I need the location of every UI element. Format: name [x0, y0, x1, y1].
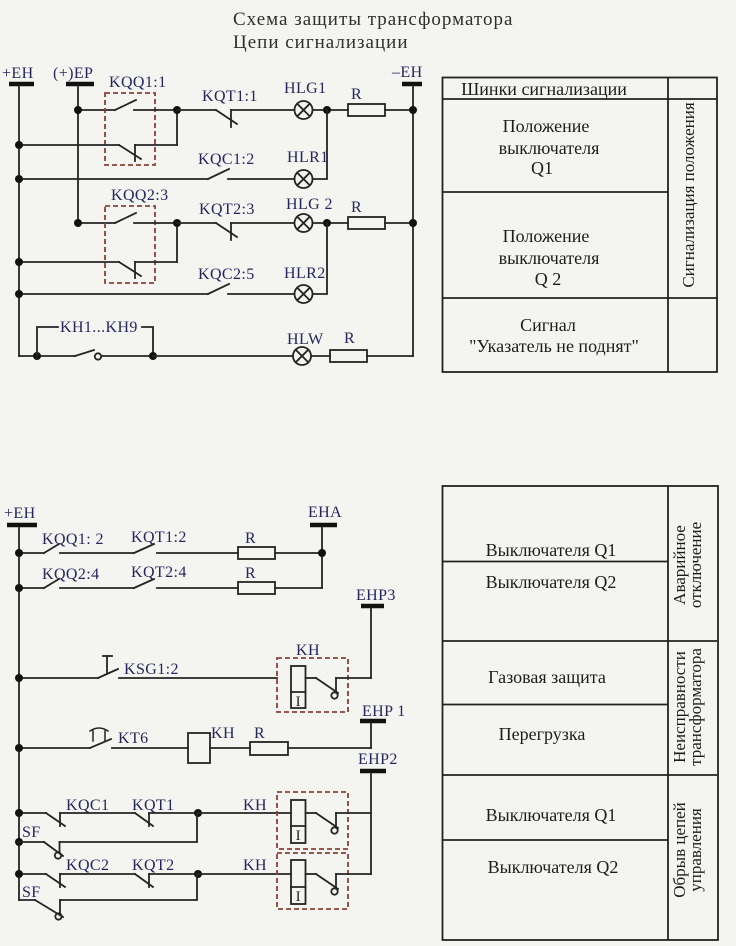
node +EH row678 [15, 674, 23, 682]
contact KQC1 (break) [46, 797, 135, 826]
switch KQQ2:3 (dashed box, two contacts) [19, 187, 177, 283]
contact KQT1 (break) [132, 797, 198, 826]
svg-text:KQC2: KQC2 [66, 857, 109, 874]
svg-text:KH: KH [243, 857, 267, 874]
svg-text:Выключателя Q2: Выключателя Q2 [486, 572, 617, 592]
wire HLR1 up to row1 [313, 110, 328, 179]
svg-text:(+)EP: (+)EP [53, 65, 93, 82]
node +EH row2 [15, 175, 23, 183]
wire row KT6 [19, 747, 90, 749]
wire EP to KQQ2:3 [78, 222, 115, 224]
wire node to KH box row874 [198, 873, 291, 875]
KQQ1:1 lower break contact [19, 144, 119, 146]
svg-text:I: I [296, 694, 301, 710]
svg-text:R: R [245, 565, 256, 582]
contact KQQ1:2 (make) [42, 531, 134, 553]
svg-text:EHP3: EHP3 [356, 587, 396, 604]
wire EP to KQQ1:1 [78, 109, 115, 111]
svg-text:SF: SF [22, 824, 41, 841]
lamp HLR1 [287, 149, 329, 188]
resistor R (HLW row) [311, 330, 413, 362]
svg-text:EHA: EHA [308, 504, 342, 521]
svg-text:HLR2: HLR2 [284, 265, 326, 282]
wire row KQQ2:4 [19, 587, 44, 589]
KQQ2:3 lower break contact [19, 261, 119, 263]
node HLG1 out [323, 106, 331, 114]
svg-text:выключателя: выключателя [499, 248, 600, 268]
bus EHP1 [360, 721, 386, 748]
node +EH row KQQ1 lower [15, 141, 23, 149]
node after KQT1 [194, 809, 202, 817]
node -EH row1 [409, 106, 417, 114]
bus EHA [308, 504, 342, 588]
node EHA row553 [318, 549, 326, 557]
node after KQT2 [194, 870, 202, 878]
node +EH row KQQ2 lower [15, 258, 23, 266]
svg-text:R: R [351, 199, 362, 216]
KQQ2:3 upper make contact [115, 213, 136, 223]
svg-text:KH: KH [211, 725, 235, 742]
title [233, 9, 513, 53]
svg-text:R: R [344, 330, 355, 347]
svg-text:Выключателя Q1: Выключателя Q1 [486, 540, 617, 560]
KQQ1:1 upper make contact [115, 100, 136, 110]
relay KH (signal relay in dashed box, KSG row) [277, 642, 371, 712]
svg-text:+EH: +EH [4, 505, 36, 522]
bus EHP2 [358, 751, 398, 874]
contact KQC2:5 (make) [198, 266, 294, 294]
relay KH (signal relay in dashed box, row874) [243, 853, 371, 909]
svg-text:KQQ2:3: KQQ2:3 [111, 187, 169, 204]
wire +EH bottom row (KH1..KH9) [19, 355, 75, 357]
svg-text:KQT2:3: KQT2:3 [199, 201, 255, 218]
table text: emergency trip (vertical) [670, 522, 705, 608]
contact KQQ2:4 (make) [42, 566, 134, 588]
resistor R (row3) [348, 199, 385, 229]
svg-text:KQT1:1: KQT1:1 [202, 88, 258, 105]
node +EH row4 [15, 290, 23, 298]
svg-text:KH: KH [296, 642, 320, 659]
wire lamp to node [313, 222, 349, 224]
svg-text:Цепи сигнализации: Цепи сигнализации [233, 32, 409, 53]
table text: transformer faults (vertical) [670, 648, 705, 766]
relay KH coil (KT6 row) [188, 725, 250, 763]
bus +EH (bottom) [4, 505, 37, 900]
wire R to -EH [385, 109, 413, 111]
svg-text:отключение: отключение [686, 522, 705, 608]
resistor R (row1) [348, 86, 385, 116]
node bracket left [33, 352, 41, 360]
svg-text:KT6: KT6 [118, 730, 149, 747]
table text: Q1 position [499, 116, 600, 178]
node EP row3 [74, 219, 82, 227]
contact KQC2 (break) [46, 857, 135, 887]
svg-text:KQC1:2: KQC1:2 [198, 151, 255, 168]
wire row KSG [19, 677, 98, 679]
svg-text:KQQ1: 2: KQQ1: 2 [42, 531, 104, 548]
contact KQT2 (break) [132, 857, 198, 887]
svg-text:Сигнал: Сигнал [520, 315, 576, 335]
node bracket right [149, 352, 157, 360]
svg-text:KH1...KH9: KH1...KH9 [60, 319, 138, 336]
table text: control circuit break (vertical) [670, 802, 705, 898]
bus (+)EP [53, 65, 94, 223]
node +EH row553 [15, 549, 23, 557]
lamp HLG2 [286, 196, 333, 232]
wire to HLW [153, 355, 293, 357]
wire row KQC1 [19, 812, 46, 814]
svg-text:"Указатель не поднят": "Указатель не поднят" [469, 336, 639, 356]
resistor R (KT6 row) [250, 725, 371, 755]
svg-text:Шинки сигнализации: Шинки сигнализации [461, 79, 627, 99]
table text: signal row [469, 315, 639, 356]
lamp HLW [287, 331, 324, 365]
svg-text:I: I [296, 889, 301, 905]
table text: Q2 position [499, 226, 600, 289]
contact KQT2:4 (make) [131, 564, 238, 588]
contact KT6 (time relay, delayed) [90, 728, 188, 748]
contact KQC1:2 (make) [198, 151, 294, 179]
table: signal buses (top) [443, 78, 718, 373]
svg-text:KQC2:5: KQC2:5 [198, 266, 255, 283]
lamp HLG1 [284, 80, 326, 119]
svg-text:R: R [254, 725, 265, 742]
svg-text:Q 2: Q 2 [535, 269, 562, 289]
svg-text:KQT2:4: KQT2:4 [131, 564, 187, 581]
contact SF (row5, parallel path) [15, 813, 197, 859]
svg-text:Перегрузка: Перегрузка [499, 724, 586, 744]
contact KQT1:2 (make) [131, 529, 238, 553]
svg-text:Газовая защита: Газовая защита [488, 667, 606, 687]
svg-text:KQT2: KQT2 [132, 857, 174, 874]
svg-text:I: I [296, 828, 301, 844]
node EP row1 [74, 106, 82, 114]
table: alarms (bottom) [443, 486, 719, 940]
svg-text:Выключателя Q1: Выключателя Q1 [486, 805, 617, 825]
node +EH row813 [15, 809, 23, 817]
wire R to -EH [385, 222, 413, 224]
svg-text:–EH: –EH [391, 64, 423, 81]
node -EH row3 [409, 219, 417, 227]
KH contact (make with circle) [306, 677, 317, 679]
wire row KQC2 [19, 873, 46, 875]
svg-text:R: R [351, 86, 362, 103]
node HLG2 out [323, 219, 331, 227]
bus -EH [391, 64, 423, 356]
contact KH1..KH9 (make with circle) [75, 350, 153, 360]
svg-text:KQT1: KQT1 [132, 797, 174, 814]
lamp HLR2 [284, 265, 326, 303]
svg-text:EHP2: EHP2 [358, 751, 398, 768]
contact KQT1:1 (break) [177, 88, 294, 127]
contact SF (row6, parallel path) [19, 874, 197, 920]
svg-text:HLW: HLW [287, 331, 324, 348]
wire HLR2 up to row3 [313, 223, 328, 294]
svg-text:Q1: Q1 [531, 158, 553, 178]
svg-text:KQQ2:4: KQQ2:4 [42, 566, 100, 583]
wire lamp to node [313, 109, 349, 111]
bus EHP3 [356, 587, 396, 678]
svg-text:HLG 2: HLG 2 [286, 196, 333, 213]
svg-text:управления: управления [686, 808, 705, 892]
svg-text:R: R [245, 530, 256, 547]
contact KQT2:3 (break) [177, 201, 294, 240]
resistor R (row588) [238, 565, 322, 594]
wire +EH to KQC2:5 [19, 293, 208, 295]
switch KQQ1:1 (dashed box, two contacts) [19, 74, 177, 165]
node after KQQ2:3 [173, 219, 181, 227]
svg-text:EHP 1: EHP 1 [362, 703, 406, 720]
svg-text:выключателя: выключателя [499, 138, 600, 158]
svg-text:KSG1:2: KSG1:2 [124, 661, 179, 678]
svg-text:HLG1: HLG1 [284, 80, 326, 97]
svg-text:KQQ1:1: KQQ1:1 [109, 74, 167, 91]
relay KH (signal relay in dashed box, row813) [243, 792, 371, 849]
node +EH row748 [15, 744, 23, 752]
svg-text:трансформатора: трансформатора [686, 648, 705, 766]
svg-text:Положение: Положение [503, 116, 590, 136]
wire row KQQ1:2 [19, 552, 44, 554]
node +EH row588 [15, 584, 23, 592]
svg-text:HLR1: HLR1 [287, 149, 329, 166]
svg-text:KQC1: KQC1 [66, 797, 109, 814]
svg-text:KH: KH [243, 797, 267, 814]
contact KSG1:2 (gas relay, make with bar) [98, 656, 277, 678]
svg-text:+EH: +EH [2, 65, 34, 82]
node +EH row874 [15, 870, 23, 878]
wire node to KH box row813 [198, 812, 291, 814]
bracket KH1...KH9 [37, 319, 153, 356]
svg-text:Положение: Положение [503, 226, 590, 246]
svg-text:Схема защиты трансформатора: Схема защиты трансформатора [233, 9, 513, 30]
node after KQQ1:1 [173, 106, 181, 114]
svg-text:KQT1:2: KQT1:2 [131, 529, 187, 546]
resistor R (row553) [238, 530, 322, 559]
wire +EH to KQC1:2 [19, 178, 208, 180]
svg-text:Выключателя Q2: Выключателя Q2 [488, 857, 619, 877]
bus +EH (top) [2, 65, 34, 356]
svg-text:Сигнализация положения: Сигнализация положения [679, 102, 698, 288]
svg-text:SF: SF [22, 884, 41, 901]
